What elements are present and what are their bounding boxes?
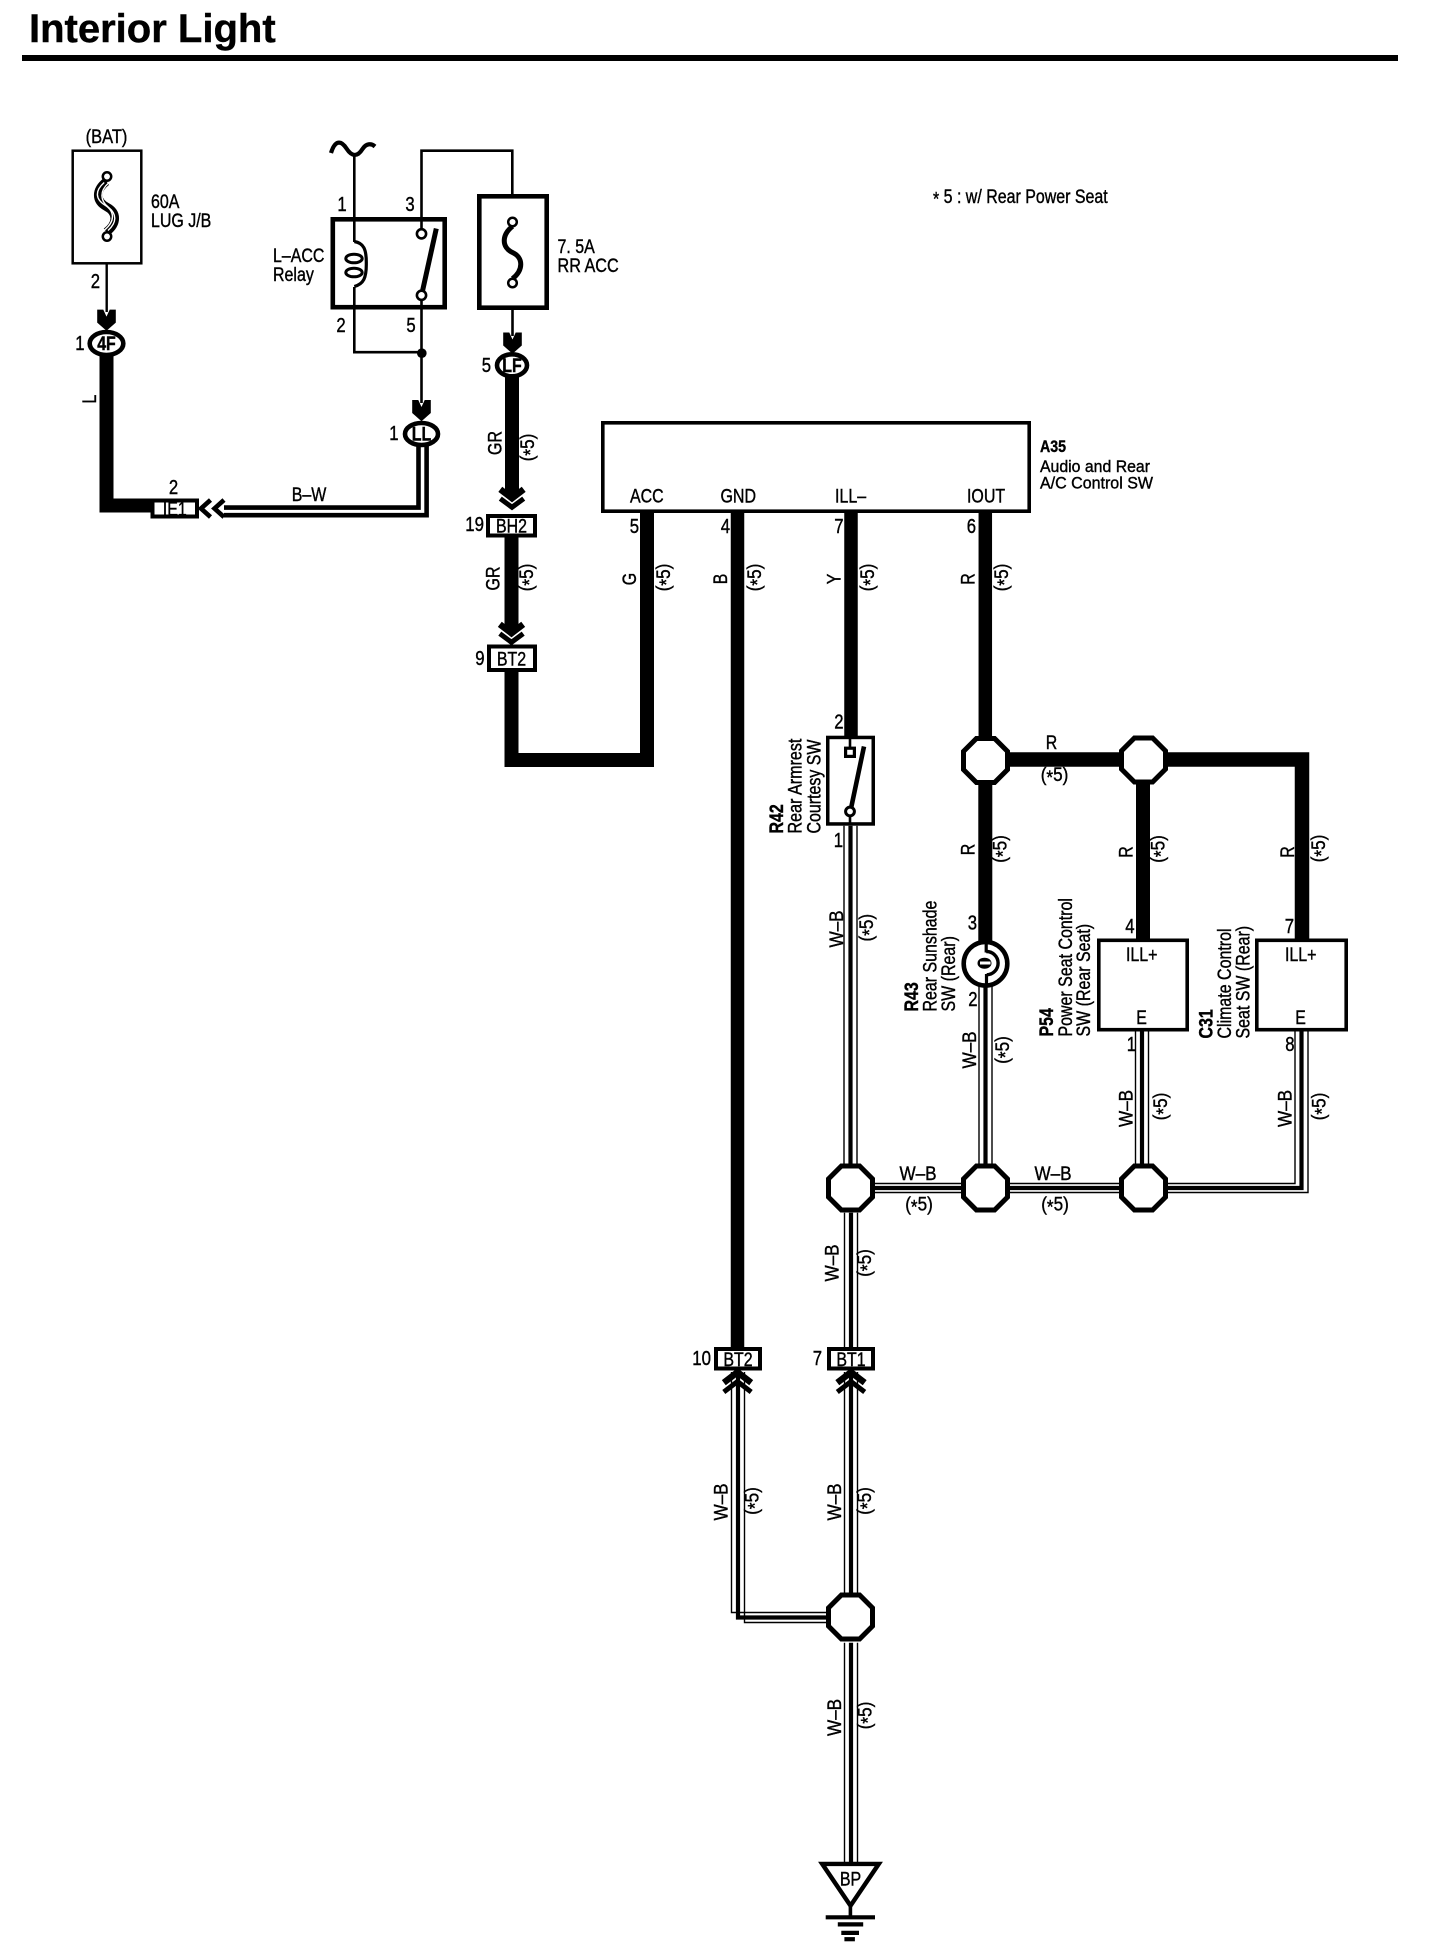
C31 box — [1257, 940, 1346, 1029]
svg-text:ILL–: ILL– — [835, 487, 866, 508]
R42 box Rear Armrest Courtesy SW — [828, 737, 874, 824]
svg-text:LL: LL — [412, 425, 432, 446]
wire ILL- thick A35 pin7 to R42 — [844, 512, 858, 738]
svg-text:LUG J/B: LUG J/B — [151, 211, 211, 232]
svg-text:E: E — [1295, 1008, 1306, 1029]
svg-text:6: 6 — [967, 516, 976, 538]
P54 box — [1099, 940, 1187, 1029]
svg-text:(*5): (*5) — [905, 1195, 933, 1219]
svg-text:W–B: W–B — [823, 1244, 844, 1281]
svg-text:10: 10 — [692, 1348, 711, 1370]
svg-text:1: 1 — [75, 333, 84, 355]
svg-text:P54: P54 — [1037, 1008, 1058, 1037]
title rule — [22, 55, 1398, 61]
svg-text:B–W: B–W — [292, 485, 327, 506]
relay L-ACC box — [333, 219, 445, 307]
relay contact (pin3) — [417, 229, 426, 238]
arrow into LF — [503, 333, 522, 354]
wire IOUT thick A35 pin6 to junction — [979, 512, 993, 740]
svg-text:5: 5 — [630, 516, 639, 538]
fuse 60A LUG J/B box — [73, 151, 142, 264]
relay coil — [354, 242, 366, 287]
up arrow into BT2 — [724, 1372, 751, 1383]
fuse 7.5A RR ACC box — [479, 196, 546, 307]
wire B-W double line LL to IE1 — [224, 446, 419, 508]
svg-text:ILL+: ILL+ — [1126, 945, 1158, 966]
svg-text:1: 1 — [389, 423, 398, 445]
svg-text:(*5): (*5) — [1041, 1195, 1069, 1219]
svg-text:(*5): (*5) — [858, 564, 882, 592]
ground stem — [849, 1906, 853, 1917]
wire relay pin 5 down to LL — [420, 299, 423, 403]
svg-text:R: R — [1278, 846, 1299, 858]
svg-text:5: 5 — [482, 355, 491, 377]
R42 switch blade — [851, 747, 864, 809]
svg-text:(*5): (*5) — [1309, 835, 1333, 863]
relay contact (pin5) — [417, 291, 426, 300]
svg-text:W–B: W–B — [1117, 1090, 1138, 1127]
wire W-B triple junction A to BT1 — [844, 1213, 846, 1348]
svg-text:Y: Y — [825, 573, 846, 584]
svg-text:W–B: W–B — [825, 1483, 846, 1520]
svg-text:A/C Control SW: A/C Control SW — [1040, 474, 1153, 493]
wire fuse to LF — [511, 310, 514, 336]
arrow into BH2 — [500, 489, 523, 498]
svg-text:4: 4 — [721, 516, 730, 538]
svg-text:R: R — [1117, 846, 1138, 858]
wire GR thick BH2 to BT2 — [505, 538, 519, 632]
wire W-B triple C31 to junction C — [1165, 1032, 1295, 1184]
wire W-B triple R43 to junction B — [978, 986, 980, 1167]
R42 moving contact — [846, 807, 855, 816]
svg-text:(*5): (*5) — [855, 1487, 879, 1515]
svg-text:(*5): (*5) — [653, 564, 677, 592]
svg-text:19: 19 — [465, 514, 484, 536]
svg-text:Interior Light: Interior Light — [29, 7, 276, 51]
wire R thick junction1 down to R43 — [978, 780, 992, 944]
svg-text:(*5): (*5) — [1309, 1093, 1333, 1121]
svg-text:(*5): (*5) — [993, 1036, 1017, 1064]
wire W-B triple junction D to BP — [844, 1643, 846, 1864]
svg-text:(*5): (*5) — [855, 1249, 879, 1277]
R43 inner symbol — [985, 941, 988, 953]
svg-text:W–B: W–B — [712, 1483, 733, 1520]
svg-text:60A: 60A — [151, 192, 180, 213]
wire R thick junction2 down to P54 pin4 — [1136, 780, 1150, 939]
svg-text:BP: BP — [840, 1870, 861, 1891]
wire R thick junction1 to junction2 — [1005, 752, 1125, 767]
chevron arrows at IE1 — [201, 500, 211, 517]
connector BH2 — [488, 516, 535, 536]
svg-text:GR: GR — [486, 431, 507, 455]
svg-text:Rear Armrest: Rear Armrest — [786, 738, 807, 834]
fuse 60A LUG J/B : feed wire to 4F — [105, 263, 107, 312]
svg-text:RR ACC: RR ACC — [558, 256, 619, 277]
wire GR thick LF to BH2 — [505, 377, 519, 496]
svg-text:W–B: W–B — [1034, 1164, 1071, 1185]
svg-text:ILL+: ILL+ — [1285, 945, 1317, 966]
svg-text:(*5): (*5) — [742, 1487, 766, 1515]
svg-text:2: 2 — [91, 271, 100, 293]
svg-text:7. 5A: 7. 5A — [558, 237, 596, 258]
wire W-B triple junction A to junction B — [870, 1183, 965, 1185]
svg-text:(*5): (*5) — [992, 564, 1016, 592]
svg-text:2: 2 — [169, 477, 178, 499]
svg-text:IOUT: IOUT — [967, 487, 1005, 508]
svg-text:4: 4 — [1125, 916, 1134, 938]
svg-text:(*5): (*5) — [857, 914, 881, 942]
svg-text:GND: GND — [721, 487, 757, 508]
svg-text:* 5 : w/ Rear Power Seat: * 5 : w/ Rear Power Seat — [933, 187, 1108, 211]
svg-text:BT2: BT2 — [723, 1350, 752, 1371]
connector BT1 lower — [829, 1349, 873, 1369]
svg-text:W–B: W–B — [1276, 1090, 1297, 1127]
svg-text:4F: 4F — [97, 334, 116, 355]
wire squiggle to relay coil pin 1 — [353, 156, 356, 242]
power feed squiggle — [331, 143, 375, 155]
fuse 60A element symbol — [98, 182, 115, 233]
connector 4F oval — [90, 332, 124, 355]
svg-text:SW (Rear Seat): SW (Rear Seat) — [1074, 924, 1095, 1037]
wire L (thick) 4F to IE1 — [107, 355, 151, 506]
svg-text:R: R — [959, 573, 980, 585]
svg-text:B: B — [711, 574, 732, 585]
ground BP triangle — [822, 1864, 879, 1906]
svg-text:(*5): (*5) — [1041, 765, 1069, 789]
svg-text:LF: LF — [502, 356, 522, 377]
connector IE1 — [153, 501, 198, 517]
svg-text:2: 2 — [336, 315, 345, 337]
connector BT2 lower — [716, 1349, 760, 1369]
junction C octagon — [1122, 1166, 1166, 1210]
svg-text:L–ACC: L–ACC — [273, 246, 324, 267]
svg-text:A35: A35 — [1040, 437, 1066, 456]
A35 pin stubs — [641, 511, 654, 513]
connector LL oval — [405, 423, 438, 445]
junction 1 octagon — [964, 739, 1008, 783]
svg-text:2: 2 — [834, 712, 843, 734]
relay switch blade — [422, 229, 436, 292]
svg-text:W–B: W–B — [960, 1031, 981, 1068]
wire W-B triple junction B to junction C — [1006, 1183, 1125, 1185]
wire W-B triple R42 to junction A — [843, 826, 845, 1166]
svg-text:BT2: BT2 — [497, 650, 526, 671]
svg-text:W–B: W–B — [827, 910, 848, 947]
svg-text:(*5): (*5) — [518, 434, 542, 462]
svg-text:(*5): (*5) — [855, 1702, 879, 1730]
svg-text:(*5): (*5) — [1148, 835, 1172, 863]
svg-text:2: 2 — [968, 989, 977, 1011]
svg-text:3: 3 — [405, 194, 414, 216]
R43 Rear Sunshade SW circle — [964, 942, 1008, 986]
svg-text:GR: GR — [484, 567, 505, 591]
svg-text:9: 9 — [475, 648, 484, 670]
svg-text:(*5): (*5) — [1151, 1093, 1175, 1121]
svg-text:W–B: W–B — [899, 1164, 936, 1185]
svg-text:Relay: Relay — [273, 265, 314, 286]
svg-text:L: L — [80, 395, 101, 404]
connector LF oval — [497, 354, 527, 376]
svg-text:Seat SW (Rear): Seat SW (Rear) — [1234, 926, 1255, 1039]
junction D octagon — [829, 1595, 873, 1639]
arrow into LL — [412, 400, 431, 421]
R42 fixed contact square — [846, 748, 855, 756]
wire BT2 to A35 ACC pin (thick) — [512, 512, 648, 760]
svg-text:5: 5 — [406, 315, 415, 337]
wire W-B triple BT1 to junction D — [844, 1372, 846, 1596]
arrow into 4F — [97, 310, 116, 331]
svg-text:7: 7 — [834, 516, 843, 538]
junction 2 octagon — [1122, 738, 1166, 782]
wire W-B triple P54 to junction C — [1135, 1032, 1137, 1167]
svg-text:7: 7 — [1285, 916, 1294, 938]
wire W-B triple BT2 to junction D — [732, 1372, 829, 1613]
up arrow into BT1 — [837, 1372, 864, 1383]
A35 box — [603, 423, 1029, 511]
svg-text:1: 1 — [834, 830, 843, 852]
svg-text:W–B: W–B — [825, 1699, 846, 1736]
wire relay pin 3 to RR ACC fuse — [422, 151, 513, 230]
junction B octagon — [964, 1166, 1008, 1210]
svg-text:R: R — [1046, 733, 1058, 754]
svg-text:3: 3 — [968, 913, 977, 935]
svg-text:(BAT): (BAT) — [86, 127, 128, 148]
svg-text:1: 1 — [1127, 1034, 1136, 1056]
ground bars — [826, 1915, 875, 1919]
svg-text:(*5): (*5) — [990, 835, 1014, 863]
arrow into BT2 — [500, 624, 523, 633]
R42 inner stub — [849, 739, 852, 749]
fuse RR ACC element symbol — [504, 226, 521, 278]
wire GND thick A35 pin4 to BT2 bottom — [731, 512, 745, 1348]
junction A octagon — [829, 1166, 873, 1210]
junction node dot — [417, 348, 427, 358]
wire R thick junction2 to C31 pin7 — [1160, 760, 1302, 940]
svg-text:8: 8 — [1285, 1034, 1294, 1056]
svg-text:BH2: BH2 — [496, 517, 527, 538]
svg-text:SW (Rear): SW (Rear) — [939, 936, 960, 1011]
svg-text:G: G — [620, 573, 641, 585]
svg-text:IE1: IE1 — [163, 500, 187, 521]
svg-text:(*5): (*5) — [517, 564, 541, 592]
svg-text:(*5): (*5) — [744, 564, 768, 592]
svg-text:BT1: BT1 — [836, 1350, 865, 1371]
R42 lower stub — [849, 815, 852, 824]
svg-text:Courtesy SW: Courtesy SW — [805, 739, 826, 833]
svg-text:1: 1 — [337, 194, 346, 216]
svg-text:R: R — [959, 844, 980, 856]
wire relay pin 2 loop to pin 5 node — [354, 287, 420, 352]
svg-text:ACC: ACC — [630, 487, 664, 508]
svg-text:7: 7 — [813, 1348, 822, 1370]
svg-text:E: E — [1136, 1008, 1147, 1029]
connector BT2 — [489, 647, 535, 671]
